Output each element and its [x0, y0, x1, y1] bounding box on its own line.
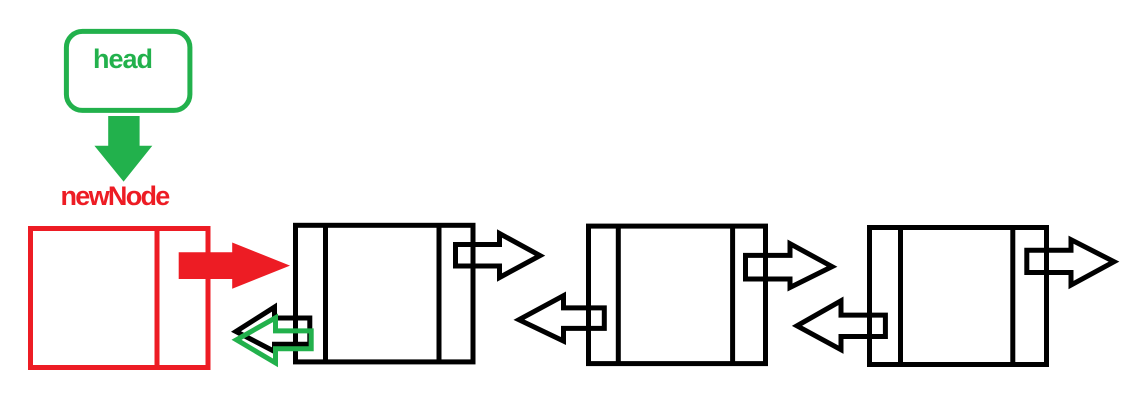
- node 1 next arrow: [456, 234, 541, 278]
- node 3 next arrow: [1027, 240, 1114, 285]
- node 3 prev arrow (to node 2): [797, 301, 885, 350]
- node 1 box: [296, 225, 474, 362]
- node 2 box: [589, 226, 766, 364]
- newNode box: [31, 229, 209, 368]
- head box: [66, 31, 189, 110]
- green down arrow (head -> newNode): [94, 116, 152, 182]
- newNode next divider: [155, 229, 160, 368]
- svg-text:head: head: [93, 44, 152, 74]
- node 2 next arrow: [746, 244, 833, 288]
- red next arrow (newNode -> node 1): [179, 243, 290, 289]
- node 3 box: [870, 228, 1047, 365]
- green prev arrow (node 1 -> newNode): [237, 318, 312, 363]
- node 2 prev arrow (to node 1): [519, 296, 604, 341]
- svg-text:newNode: newNode: [61, 181, 171, 211]
- node 1 prev arrow (black, to newNode): [236, 307, 310, 351]
